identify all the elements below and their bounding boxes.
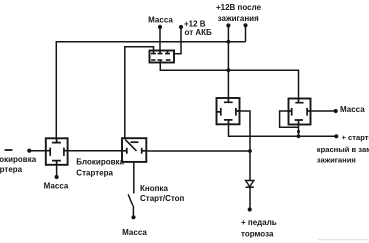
svg-text:Масса: Масса [148, 15, 173, 24]
relay K1 (6-pin socket) body [150, 51, 175, 63]
svg-text:+12В после: +12В после [216, 3, 262, 12]
relay K3 bottom contact [295, 120, 304, 125]
relay K1 bottom contacts [151, 59, 155, 61]
node: +12V battery terminal [179, 25, 183, 29]
svg-text:зажигания: зажигания [218, 14, 259, 23]
svg-text:Масса: Масса [44, 182, 69, 191]
node: junction K3 bottom / starter wire [297, 134, 301, 138]
wire: ground (Масса) terminal down into K1 pin2 [159, 27, 161, 51]
wire: K3 bottom pin to starter wire junction [298, 125, 300, 137]
node: junction K1 bottom wire / K2 drop [227, 68, 231, 72]
push button SB1 blade (Кнопка Старт/Стоп) [128, 194, 133, 205]
wire: S1 bottom pin down to push button [133, 162, 135, 194]
relay K2 left contact [217, 108, 221, 116]
svg-text:красный в замке: красный в замке [317, 145, 369, 154]
relay K4 body (blocking relay bottom-left) [46, 138, 68, 165]
svg-text:Блокировка: Блокировка [0, 155, 37, 164]
wire: +12V after ignition terminal 2 down to bus [245, 25, 247, 42]
node: button ground terminal [131, 215, 135, 219]
wire: K2 bottom pin to starter terminal [229, 124, 337, 136]
relay K3 right contact [307, 108, 310, 116]
svg-text:Стартера: Стартера [76, 169, 113, 178]
relay K4 top contact [52, 138, 61, 142]
svg-text:Стартера: Стартера [0, 165, 23, 174]
node: K4 ground terminal [55, 175, 59, 179]
node: +12V after ignition terminal 1 [226, 23, 230, 27]
relay K2 bottom contact [224, 120, 233, 124]
relay K2 body [217, 98, 240, 124]
svg-text:Масса: Масса [340, 105, 365, 114]
node: junction S1 wire / diode branch [248, 149, 252, 153]
node: blocking output terminal [27, 149, 31, 153]
wire: diode cathode down to brake pedal terminal [249, 187, 251, 210]
wire: K4 right pin to S1 left pin [68, 150, 122, 152]
diode D1 [246, 181, 254, 187]
svg-text:Масса: Масса [122, 228, 147, 237]
relay K3 top contact [295, 99, 303, 103]
relay K4 bottom contact [52, 161, 61, 165]
relay K2 top contact [224, 98, 233, 102]
wire: S1 right pin to diode branch junction [146, 150, 250, 152]
wire: +12V after ignition terminal 1 down to relay K2 top [227, 26, 229, 99]
svg-text:зажигания: зажигания [317, 156, 356, 165]
faint scan artifact bottom right [318, 239, 369, 240]
S1 fixed contact bar [131, 141, 139, 143]
relay K3 body [289, 99, 311, 125]
S1 left contact [122, 148, 127, 154]
relay K4 right contact [64, 148, 68, 156]
node: ground terminal (top, Масса) [158, 25, 162, 29]
relay K2 right contact [236, 108, 240, 116]
relay K3 left contact [289, 108, 292, 116]
wire: blocking output terminal to K4 left pin [29, 150, 46, 152]
svg-text:от АКБ: от АКБ [185, 28, 212, 37]
wire: button to ground dot [132, 206, 134, 218]
wire: K4 bottom pin to ground dot [56, 165, 58, 177]
node: +12V after ignition terminal 2 [243, 23, 247, 27]
wire: K2 right output down to diode branch [240, 111, 251, 181]
wire: +12V battery terminal into K1 right side [174, 27, 181, 54]
svg-text:Старт/Стоп: Старт/Стоп [140, 194, 185, 203]
wire: K3 right pin to ground terminal [311, 110, 336, 112]
svg-text:Блокировка: Блокировка [76, 157, 124, 166]
node: starter output terminal [334, 134, 338, 138]
node: junction bus / K2 drop [227, 40, 231, 44]
node: ground terminal right (Масса) [334, 109, 338, 113]
node: brake pedal terminal [248, 207, 252, 211]
relay K4 left contact [46, 148, 50, 156]
label: — Блокировка Стартера (left, clipped) [5, 149, 13, 151]
wire: main +12V-after-ignition bus (top horizontal and left drop to K4) [56, 42, 245, 139]
blocking contact S1 body [122, 138, 146, 162]
S1 switch blade [125, 140, 136, 152]
svg-text:тормоза: тормоза [241, 229, 274, 238]
svg-text:+ педаль: + педаль [241, 218, 277, 227]
node: junction K3 loop / bottom pin [297, 130, 300, 133]
relay K1 top contacts [151, 51, 156, 54]
svg-text:Кнопка: Кнопка [140, 184, 168, 193]
S1 right contact [142, 148, 147, 154]
wire: K3 left pin loop to its bottom pin [280, 111, 299, 127]
wire: K1 bottom pin to relay K3 top (with junction to K2 drop) [160, 63, 298, 99]
wire: jog from relay K1 pin1 to blocking contact S1 top [125, 47, 154, 138]
svg-text:+ стартер: + стартер [342, 133, 369, 142]
